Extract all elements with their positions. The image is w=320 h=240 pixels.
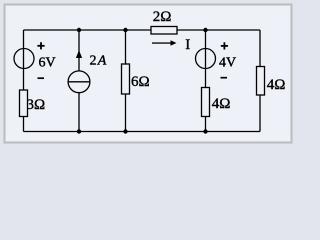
node dot bottom 4V [203, 129, 207, 133]
wire branch 4V [205, 30, 207, 132]
voltage source 6V circle [14, 49, 34, 69]
label - (6V) [38, 77, 45, 79]
resistor 4ohm (middle) [202, 88, 210, 117]
wire right [259, 30, 261, 132]
wire bottom [24, 131, 261, 133]
arrowhead 2A up [76, 50, 82, 58]
svg-text:2Ω: 2Ω [153, 9, 172, 25]
wire left [23, 30, 25, 132]
wire branch 6ohm [125, 30, 127, 132]
svg-text:4V: 4V [219, 56, 236, 71]
resistor 2ohm (top) [151, 27, 177, 35]
panel background [0, 0, 298, 148]
svg-text:4Ω: 4Ω [212, 96, 231, 112]
current source 2A circle [68, 71, 90, 93]
wire branch 2A [78, 30, 80, 132]
svg-text:4Ω: 4Ω [267, 77, 286, 93]
label - (4V) [221, 77, 228, 79]
node dot bottom 6ohm [123, 129, 127, 133]
svg-text:6Ω: 6Ω [131, 74, 150, 90]
svg-text:I: I [185, 37, 190, 53]
svg-text:3Ω: 3Ω [27, 97, 46, 113]
svg-text:2A: 2A [90, 54, 107, 69]
node dot top 6ohm [123, 28, 127, 32]
voltage source 4V circle [196, 49, 216, 69]
resistor 6ohm [122, 64, 130, 94]
panel inner area with gray border [5, 5, 292, 143]
svg-text:6V: 6V [39, 56, 56, 71]
node dot top 2A [77, 28, 81, 32]
wire top [24, 29, 261, 31]
label + (6V) [37, 42, 44, 49]
node dot top 4V [203, 28, 207, 32]
current I arrow [152, 42, 171, 43]
label + (4V) [221, 42, 228, 49]
node dot bottom 2A [77, 129, 81, 133]
resistor 4ohm (right) [257, 67, 265, 96]
resistor 3ohm [20, 90, 28, 117]
